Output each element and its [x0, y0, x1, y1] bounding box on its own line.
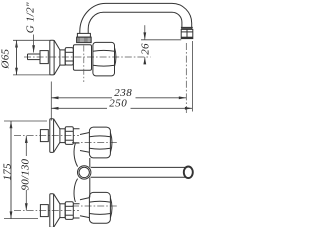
- dim 26: [141, 39, 181, 41]
- big swivel hex nut: [93, 42, 116, 76]
- spout tube (plan): [91, 166, 185, 168]
- small union hex nut: [65, 48, 73, 65]
- dim 90/130: [25, 136, 27, 142]
- lower union nipple: [40, 205, 48, 217]
- knurl hatching: [77, 37, 91, 42]
- main axis centerline: [24, 56, 151, 58]
- swivel spout tube: [80, 3, 192, 33]
- escutcheon rim: [50, 40, 54, 75]
- union nipple: [40, 51, 48, 64]
- svg-text:G 1/2": G 1/2": [25, 2, 37, 33]
- upper valve housing: [73, 129, 79, 143]
- upper union nipple: [40, 130, 48, 142]
- hub cylinder: [60, 50, 65, 65]
- upper escutcheon cone: [54, 119, 60, 129]
- body vertical centerline: [83, 46, 85, 83]
- body outline: [74, 143, 90, 202]
- lower hub: [60, 204, 65, 218]
- upper small hex nut: [65, 127, 73, 145]
- dim diameter 65: [13, 39, 50, 41]
- lower escutcheon rim: [50, 194, 54, 228]
- svg-text:Ø65: Ø65: [0, 48, 12, 69]
- svg-text:90/130: 90/130: [19, 158, 31, 190]
- upper escutcheon rim: [50, 119, 54, 153]
- dim 238: [50, 82, 52, 121]
- aerator end (plan): [184, 167, 193, 179]
- faucet body: [73, 45, 91, 70]
- aerator body: [181, 29, 193, 38]
- lower valve housing: [73, 204, 79, 218]
- escutcheon cone: [54, 40, 60, 75]
- svg-text:26: 26: [140, 43, 152, 55]
- dim 250: [51, 107, 107, 109]
- wire: threaded tail pipe into wall: [28, 54, 41, 60]
- svg-text:175: 175: [2, 163, 14, 181]
- lower bonnet hex nut: [89, 192, 112, 223]
- knurled collar ring: [77, 33, 92, 42]
- lower escutcheon cone: [54, 194, 60, 204]
- dim 175: [4, 120, 47, 122]
- wall axes centerlines: [14, 136, 119, 211]
- svg-text:250: 250: [109, 98, 127, 110]
- upper hub: [60, 129, 65, 143]
- swivel pivot ring: [78, 166, 91, 179]
- upper bonnet neck: [80, 133, 89, 153]
- aerator chamfer ring: [181, 27, 192, 29]
- upper bonnet hex nut: [89, 127, 112, 158]
- lower small hex nut: [65, 202, 73, 220]
- dim G 1/2" leader: [33, 35, 35, 53]
- lower bonnet neck: [80, 198, 89, 218]
